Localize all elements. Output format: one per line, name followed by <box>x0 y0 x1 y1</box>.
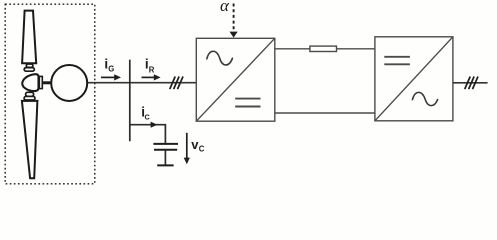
DC link top wire <box>275 48 375 50</box>
wind turbine enclosure (dashed box) <box>5 4 95 184</box>
shaft flange <box>39 76 42 88</box>
dashed control arrow <box>233 4 235 32</box>
shaft to generator <box>43 81 52 84</box>
wind turbine lower blade <box>22 101 38 178</box>
wind turbine upper blade <box>22 11 36 64</box>
converter U1 (rectifier) box <box>196 38 274 121</box>
wire: capacitor branch <box>130 125 166 144</box>
wire: generator to rectifier <box>87 82 196 84</box>
arrow iR <box>142 76 156 78</box>
ground bar <box>157 164 173 166</box>
svg-text:α: α <box>220 0 230 15</box>
DC link series element (resistor) <box>310 46 337 51</box>
svg-text:R: R <box>149 66 155 75</box>
turbine hub (nose cone) <box>22 74 38 91</box>
svg-text:C: C <box>145 113 151 122</box>
svg-text:C: C <box>199 145 205 154</box>
lower blade root rings <box>26 92 34 96</box>
arrow iG <box>101 76 116 78</box>
voltage arrow vC <box>186 133 188 160</box>
node junction line <box>129 60 131 142</box>
three-phase slash (grid side) <box>465 77 471 90</box>
svg-text:G: G <box>108 64 114 73</box>
upper blade root rings <box>26 64 33 67</box>
three-phase slash (generator side) <box>170 77 176 90</box>
capacitor C plates <box>153 143 178 145</box>
capacitor lower lead <box>164 151 166 165</box>
wire: inverter to grid <box>453 82 488 84</box>
U1 AC sine symbol <box>207 51 233 65</box>
U2 DC symbol <box>384 56 410 58</box>
U2 AC sine symbol <box>412 92 437 105</box>
U1 diagonal <box>196 38 274 121</box>
U1 DC symbol <box>235 98 260 100</box>
U2 diagonal <box>375 37 453 121</box>
converter U2 (inverter) box <box>375 37 453 121</box>
DC link bottom wire <box>275 112 375 114</box>
arrow iC (on branch) <box>151 122 158 128</box>
generator <box>51 65 87 101</box>
